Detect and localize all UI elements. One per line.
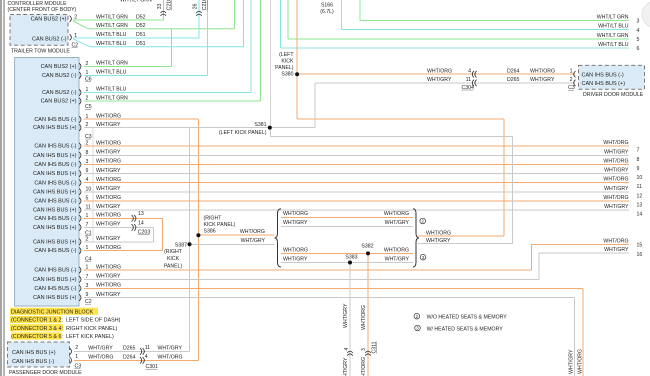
svg-text:WHT/GRY: WHT/GRY: [96, 122, 121, 128]
svg-text:7: 7: [86, 274, 89, 280]
svg-text:KICK: KICK: [167, 256, 180, 262]
svg-text:WHT/ORG: WHT/ORG: [603, 140, 628, 146]
svg-text:11: 11: [637, 184, 642, 190]
svg-text:CAN IHS BUS (-): CAN IHS BUS (-): [12, 359, 54, 365]
svg-text:WHT/ORG: WHT/ORG: [96, 245, 121, 251]
svg-text:D52: D52: [136, 14, 146, 20]
svg-text:PANEL): PANEL): [275, 65, 294, 71]
svg-text:CAN IHS BUS (+): CAN IHS BUS (+): [33, 225, 77, 231]
svg-text:WHT/LT GRN: WHT/LT GRN: [597, 14, 629, 20]
svg-text:WHT/GRY: WHT/GRY: [96, 168, 121, 174]
svg-text:CAN IHS BUS (-): CAN IHS BUS (-): [34, 162, 76, 168]
svg-text:3: 3: [361, 348, 367, 351]
svg-text:WHT/GRY: WHT/GRY: [283, 220, 308, 226]
svg-text:CAN IHS BUS (-): CAN IHS BUS (-): [34, 248, 76, 254]
svg-text:KICK: KICK: [281, 59, 294, 65]
svg-text:WHT/ORG: WHT/ORG: [96, 159, 121, 165]
svg-text:PANEL): PANEL): [164, 263, 183, 269]
svg-text:WHT/LT GRN: WHT/LT GRN: [96, 14, 128, 20]
svg-text:W/ HEATED SEATS & MEMORY: W/ HEATED SEATS & MEMORY: [427, 326, 504, 332]
svg-text:D264: D264: [123, 355, 136, 361]
svg-text:WHT/GRY: WHT/GRY: [427, 77, 452, 83]
svg-text:CAN BUS2 (+): CAN BUS2 (+): [41, 99, 77, 105]
svg-text:WHT/GRY: WHT/GRY: [385, 220, 410, 226]
svg-text:WHT/LT GRN: WHT/LT GRN: [96, 23, 128, 29]
svg-text:(LEFT KICK PANEL): (LEFT KICK PANEL): [219, 130, 267, 136]
svg-text:D264: D264: [507, 68, 520, 74]
svg-text:WHT/GRY: WHT/GRY: [283, 256, 308, 262]
svg-text:2: 2: [86, 236, 89, 242]
svg-text:CAN IHS BUS (+): CAN IHS BUS (+): [12, 350, 56, 356]
svg-text:6: 6: [637, 46, 640, 52]
svg-text:DRIVER DOOR MODULE: DRIVER DOOR MODULE: [583, 92, 644, 98]
svg-text:TRAILER TOW MODULE: TRAILER TOW MODULE: [11, 49, 70, 55]
svg-text:WHT/ORG: WHT/ORG: [96, 140, 121, 146]
svg-text:WHT/GRY: WHT/GRY: [158, 346, 183, 352]
svg-text:(6.7L): (6.7L): [320, 9, 334, 15]
svg-text:WHT/GRY: WHT/GRY: [96, 274, 121, 280]
svg-text:26: 26: [193, 3, 199, 9]
svg-text:WHT/ORG: WHT/ORG: [426, 230, 451, 236]
svg-text:WHT/LT BLU: WHT/LT BLU: [96, 70, 127, 76]
svg-text:WHT/GRY: WHT/GRY: [96, 186, 121, 192]
svg-text:2: 2: [570, 77, 573, 83]
svg-text:(CONNECTOR 3 & 4: RIGHT KICK: (CONNECTOR 3 & 4: RIGHT KICK PANEL): [11, 326, 118, 332]
svg-text:12: 12: [637, 193, 643, 199]
svg-text:WHT/ORG: WHT/ORG: [96, 195, 121, 201]
svg-text:13: 13: [138, 211, 144, 217]
svg-text:CAN BUS2 (-): CAN BUS2 (-): [32, 37, 67, 43]
svg-text:3: 3: [86, 283, 89, 289]
svg-text:11: 11: [86, 205, 91, 211]
svg-text:3: 3: [637, 19, 640, 25]
svg-text:33: 33: [157, 3, 163, 9]
svg-text:WHT/ORG: WHT/ORG: [158, 355, 183, 361]
svg-text:WHT/GRY: WHT/GRY: [604, 149, 629, 155]
svg-text:WHT/ORG: WHT/ORG: [603, 177, 628, 183]
svg-text:9: 9: [86, 168, 89, 174]
svg-text:WHT/GRY: WHT/GRY: [88, 346, 113, 352]
svg-text:WHT/ORG: WHT/ORG: [603, 158, 628, 164]
svg-text:CAN IHS BUS (-): CAN IHS BUS (-): [34, 199, 76, 205]
svg-text:CAN IHS BUS (+): CAN IHS BUS (+): [582, 81, 626, 87]
svg-text:2: 2: [86, 96, 89, 102]
svg-text:KICK PANEL): KICK PANEL): [204, 222, 236, 228]
svg-text:WHT/LT GRN: WHT/LT GRN: [120, 0, 152, 4]
svg-text:WHT/ORG: WHT/ORG: [88, 355, 113, 361]
svg-text:S380: S380: [281, 72, 293, 78]
svg-text:D51: D51: [136, 41, 146, 47]
svg-text:CAN BUS2 (-): CAN BUS2 (-): [42, 73, 77, 79]
svg-text:WHT/GRY: WHT/GRY: [530, 77, 555, 83]
svg-text:CAN IHS BUS (-): CAN IHS BUS (-): [34, 180, 76, 186]
svg-text:WHT/ORG: WHT/ORG: [96, 177, 121, 183]
svg-text:S387: S387: [175, 242, 187, 248]
svg-text:4: 4: [145, 354, 148, 360]
svg-text:D265: D265: [507, 77, 520, 83]
svg-text:CAN IHS BUS (+): CAN IHS BUS (+): [33, 153, 77, 159]
svg-text:WHT/ORG: WHT/ORG: [603, 239, 628, 245]
svg-text:D52: D52: [136, 23, 146, 29]
svg-text:CAN IHS BUS (-): CAN IHS BUS (-): [34, 144, 76, 150]
svg-text:WHT/LT BLU: WHT/LT BLU: [598, 42, 629, 48]
svg-text:1: 1: [86, 265, 89, 271]
svg-text:1: 1: [86, 213, 89, 219]
svg-text:WHT/ORG: WHT/ORG: [96, 114, 121, 120]
svg-text:(CONNECTOR 1 & 2: LEFT SIDE O: (CONNECTOR 1 & 2: LEFT SIDE OF DASH): [11, 318, 121, 324]
svg-text:WHT/LT GRN: WHT/LT GRN: [96, 61, 128, 67]
svg-text:S382: S382: [361, 244, 373, 250]
svg-text:WHT/ORG: WHT/ORG: [530, 68, 555, 74]
svg-text:DIAGNOSTIC JUNCTION BLOCK: DIAGNOSTIC JUNCTION BLOCK: [11, 310, 93, 316]
svg-text:S381: S381: [254, 122, 266, 128]
svg-text:WHT/ORG: WHT/ORG: [361, 357, 367, 376]
svg-text:WHT/GRY: WHT/GRY: [604, 204, 629, 210]
svg-text:CAN IHS BUS (+): CAN IHS BUS (+): [33, 125, 77, 131]
svg-text:14: 14: [637, 212, 643, 218]
svg-text:WHT/ORG: WHT/ORG: [96, 283, 121, 289]
svg-text:CAN IHS BUS (-): CAN IHS BUS (-): [34, 286, 76, 292]
svg-text:WHT/GRY: WHT/GRY: [343, 357, 349, 376]
svg-text:WHT/ORG: WHT/ORG: [283, 211, 308, 217]
svg-text:WHT/GRY: WHT/GRY: [96, 150, 121, 156]
svg-text:WHT/GRY: WHT/GRY: [569, 349, 575, 374]
svg-text:WHT/GRY: WHT/GRY: [96, 292, 121, 298]
svg-text:CONTROLLER MODULE: CONTROLLER MODULE: [8, 1, 68, 7]
svg-text:S386: S386: [204, 228, 216, 234]
svg-text:1: 1: [570, 68, 573, 74]
svg-text:2: 2: [86, 61, 89, 67]
svg-text:9: 9: [637, 166, 640, 172]
svg-text:WHT/ORG: WHT/ORG: [384, 211, 409, 217]
svg-text:CAN IHS BUS (+): CAN IHS BUS (+): [33, 295, 77, 301]
svg-text:8: 8: [86, 150, 89, 156]
svg-text:CAN IHS BUS (-): CAN IHS BUS (-): [34, 117, 76, 123]
svg-text:S166: S166: [321, 2, 333, 8]
svg-text:WHT/LT GRN: WHT/LT GRN: [597, 33, 629, 39]
svg-text:WHT/ORG: WHT/ORG: [283, 247, 308, 253]
svg-text:4: 4: [637, 28, 640, 34]
svg-text:(CENTER FRONT OF BODY): (CENTER FRONT OF BODY): [8, 7, 77, 13]
svg-text:2: 2: [75, 345, 78, 351]
svg-text:CAN BUS2 (+): CAN BUS2 (+): [41, 64, 77, 70]
svg-text:16: 16: [637, 252, 643, 258]
svg-text:8: 8: [637, 157, 640, 163]
svg-text:11: 11: [145, 345, 150, 351]
svg-text:D265: D265: [123, 346, 136, 352]
svg-text:D51: D51: [136, 32, 146, 38]
svg-text:WHT/GRY: WHT/GRY: [426, 238, 451, 244]
svg-text:CAN BUS2 (+): CAN BUS2 (+): [31, 16, 67, 22]
svg-text:PASSENGER DOOR MODULE: PASSENGER DOOR MODULE: [9, 370, 82, 376]
svg-text:WHT/LT BLU: WHT/LT BLU: [96, 41, 127, 47]
svg-text:S383: S383: [345, 255, 357, 261]
svg-text:5: 5: [637, 37, 640, 43]
svg-text:1: 1: [86, 245, 89, 251]
svg-text:11: 11: [466, 77, 471, 83]
svg-text:15: 15: [637, 243, 643, 249]
svg-text:WHT/GRY: WHT/GRY: [96, 236, 121, 242]
svg-text:WHT/GRY: WHT/GRY: [241, 238, 266, 244]
svg-text:CAN IHS BUS (+): CAN IHS BUS (+): [33, 277, 77, 283]
svg-text:1: 1: [75, 354, 78, 360]
svg-text:1: 1: [86, 70, 89, 76]
svg-text:13: 13: [637, 202, 643, 208]
svg-text:WHT/ORG: WHT/ORG: [384, 247, 409, 253]
svg-text:CAN IHS BUS (-): CAN IHS BUS (-): [582, 72, 624, 78]
svg-text:WHT/GRY: WHT/GRY: [96, 222, 121, 228]
svg-text:CAN IHS BUS (+): CAN IHS BUS (+): [33, 208, 77, 214]
svg-text:WHT/ORG: WHT/ORG: [578, 349, 584, 374]
svg-text:WHT/ORG: WHT/ORG: [427, 68, 452, 74]
svg-text:9: 9: [86, 292, 89, 298]
svg-text:1: 1: [86, 114, 89, 120]
svg-text:WHT/GRY: WHT/GRY: [604, 186, 629, 192]
svg-text:WHT/GRY: WHT/GRY: [604, 168, 629, 174]
svg-text:WHT/ORG: WHT/ORG: [361, 305, 367, 330]
svg-text:4: 4: [468, 68, 471, 74]
svg-text:CAN IHS BUS (+): CAN IHS BUS (+): [33, 189, 77, 195]
svg-text:2: 2: [86, 122, 89, 128]
svg-text:2: 2: [74, 15, 77, 21]
svg-text:(CONNECTOR 5 & 6: LEFT KICK P: (CONNECTOR 5 & 6: LEFT KICK PANEL): [11, 334, 114, 340]
svg-text:WHT/LT BLU: WHT/LT BLU: [96, 87, 127, 93]
svg-text:W/O HEATED SEATS & MEMORY: W/O HEATED SEATS & MEMORY: [427, 314, 508, 320]
svg-text:CAN BUS2 (-): CAN BUS2 (-): [42, 90, 77, 96]
svg-text:7: 7: [86, 222, 89, 228]
svg-text:2: 2: [86, 141, 89, 147]
svg-text:3: 3: [86, 159, 89, 165]
svg-text:1: 1: [74, 33, 77, 39]
svg-text:(RIGHT: (RIGHT: [164, 249, 183, 255]
svg-text:CAN IHS BUS (+): CAN IHS BUS (+): [33, 171, 77, 177]
svg-text:(RIGHT: (RIGHT: [204, 215, 223, 221]
svg-text:1: 1: [86, 87, 89, 93]
svg-text:14: 14: [138, 220, 144, 226]
svg-text:WHT/ORG: WHT/ORG: [96, 213, 121, 219]
svg-text:WHT/LT BLU: WHT/LT BLU: [598, 24, 629, 30]
svg-text:10: 10: [86, 186, 92, 192]
svg-text:WHT/GRY: WHT/GRY: [604, 247, 629, 253]
svg-text:WHT/GRY: WHT/GRY: [343, 303, 349, 328]
svg-text:WHT/ORG: WHT/ORG: [603, 195, 628, 201]
svg-text:WHT/LT BLU: WHT/LT BLU: [96, 32, 127, 38]
svg-text:WHT/GRY: WHT/GRY: [96, 204, 121, 210]
svg-text:WHT/LT GRN: WHT/LT GRN: [96, 95, 128, 101]
svg-text:7: 7: [637, 148, 640, 154]
svg-text:4: 4: [344, 348, 350, 351]
svg-text:WHT/GRY: WHT/GRY: [385, 256, 410, 262]
svg-text:WHT/ORG: WHT/ORG: [96, 264, 121, 270]
svg-text:10: 10: [637, 175, 643, 181]
svg-text:WHT/ORG: WHT/ORG: [240, 229, 265, 235]
svg-text:5: 5: [86, 195, 89, 201]
svg-text:4: 4: [86, 177, 89, 183]
svg-text:CAN IHS BUS (-): CAN IHS BUS (-): [34, 216, 76, 222]
svg-text:CAN IHS BUS (-): CAN IHS BUS (-): [34, 268, 76, 274]
svg-text:(LEFT: (LEFT: [279, 52, 294, 58]
svg-text:CAN IHS BUS (+): CAN IHS BUS (+): [33, 239, 77, 245]
